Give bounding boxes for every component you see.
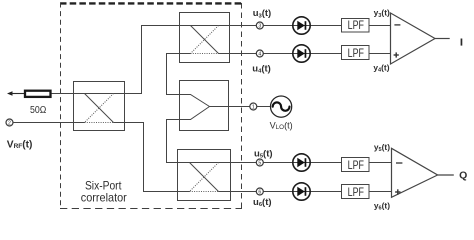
wire divider to P1 (229, 106, 251, 108)
LPF block 2 (342, 46, 370, 60)
wire H2 out (port 4) row (230, 53, 391, 55)
power divider W1 (180, 81, 229, 131)
diode detector D6 (293, 183, 310, 200)
LPF block 1 (342, 18, 370, 32)
source VLO (AC) (271, 96, 292, 117)
svg-text:6: 6 (258, 189, 261, 195)
svg-text:correlator: correlator (81, 192, 127, 205)
wire H1 out1 to H2 in1 (125, 26, 180, 94)
label Q (459, 170, 467, 182)
label u3(t) (253, 8, 272, 19)
label y6(t) (374, 201, 390, 212)
label u6(t) (253, 197, 272, 208)
wire divider out2 to H3 in1 (167, 120, 180, 163)
svg-text:Six-Port: Six-Port (85, 179, 122, 192)
svg-text:u4(t): u4(t) (252, 64, 271, 75)
wire H3 out (port 5) row (231, 162, 392, 164)
diode detector D4 (293, 45, 310, 62)
svg-text:LPF: LPF (348, 158, 365, 172)
svg-text:u6(t): u6(t) (253, 197, 272, 208)
value label 50Ω (30, 105, 47, 116)
six-port correlator dashed box top border (60, 2, 242, 4)
svg-text:3: 3 (258, 23, 261, 29)
diode detector D3 (293, 17, 310, 34)
svg-text:u5(t): u5(t) (254, 148, 273, 159)
resistor 50Ω (25, 91, 51, 97)
wire divider out1 to H2 in2 (167, 54, 180, 95)
label I (461, 39, 463, 46)
hybrid coupler H2 (180, 13, 230, 63)
six-port correlator dashed box left border (60, 3, 62, 209)
svg-text:50Ω: 50Ω (30, 105, 47, 116)
svg-text:LPF: LPF (348, 18, 365, 32)
hybrid coupler H1 (74, 82, 125, 131)
svg-text:LPF: LPF (348, 46, 365, 60)
svg-text:4: 4 (258, 51, 261, 57)
six-port correlator dashed box right border (241, 3, 243, 209)
wire A2 output (438, 174, 454, 176)
wire P1 to VLO source (257, 106, 271, 108)
label u4(t) (252, 64, 271, 75)
port P4 circle (256, 50, 263, 57)
svg-text:y3(t): y3(t) (374, 8, 390, 19)
termination arrow (matched load) (7, 91, 24, 96)
svg-text:2: 2 (8, 120, 11, 126)
svg-text:u3(t): u3(t) (253, 8, 272, 19)
hybrid coupler H3 (178, 150, 231, 201)
port P2 circle (RF input) (6, 119, 13, 126)
wire resistor to coupler H1 (52, 93, 74, 95)
port P1 circle (LO input) (250, 103, 257, 110)
svg-text:Q: Q (459, 170, 467, 182)
svg-text:LPF: LPF (348, 185, 365, 199)
wire P2 to coupler H1 (13, 122, 74, 124)
label y5(t) (374, 142, 390, 153)
wire H1 out2 to H3 in2 (125, 123, 178, 192)
diode detector D5 (293, 154, 310, 171)
svg-text:1: 1 (252, 104, 255, 110)
LPF block 4 (342, 185, 370, 199)
label VLO(t) (270, 120, 293, 131)
port P5 circle (256, 159, 263, 166)
wire H3 out (port 6) row (231, 191, 392, 193)
op-amp A1 (I channel) (391, 13, 436, 64)
label y3(t) (374, 8, 390, 19)
svg-text:y4(t): y4(t) (373, 62, 389, 73)
port P6 circle (256, 188, 263, 195)
wire A1 output (435, 38, 450, 40)
op-amp A2 (Q channel) (392, 148, 438, 197)
label y4(t) (373, 62, 389, 73)
label VRF(t) (7, 139, 33, 150)
svg-text:5: 5 (258, 160, 261, 166)
label Six-Port correlator (81, 179, 127, 204)
wire H2 out (port 3) row (230, 25, 391, 27)
svg-text:y5(t): y5(t) (374, 142, 390, 153)
svg-text:y6(t): y6(t) (374, 201, 390, 212)
port P3 circle (256, 22, 263, 29)
label u5(t) (254, 148, 273, 159)
LPF block 3 (342, 158, 370, 172)
six-port correlator dashed box bottom border (60, 208, 242, 210)
